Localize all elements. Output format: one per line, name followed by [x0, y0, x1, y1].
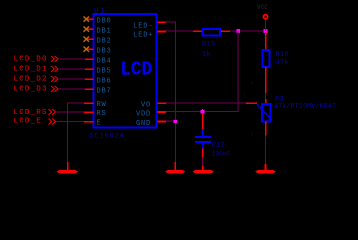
svg-text:1k: 1k: [202, 51, 211, 59]
svg-text:VO: VO: [141, 102, 151, 110]
no-connect X pin DB3 stub: [87, 49, 94, 51]
no-connect X mark DB0: [84, 17, 90, 22]
no-connect X pin DB2 stub: [87, 39, 94, 41]
pin stub VO: [158, 103, 167, 105]
lead R16 bottom: [265, 67, 267, 93]
wiper lead red: [246, 103, 257, 105]
svg-text:15: 15: [166, 17, 172, 23]
svg-text:DB3: DB3: [97, 48, 112, 56]
svg-text:R16: R16: [276, 51, 290, 59]
junction C17 top: [201, 110, 205, 114]
wire LCD_D0 to DB4: [58, 59, 85, 60]
ground lead RW: [67, 162, 69, 170]
ground symbol LED- net: [165, 170, 186, 173]
svg-text:DB5: DB5: [97, 68, 112, 76]
svg-text:2: 2: [251, 80, 254, 86]
ground lead LED- net: [175, 162, 177, 170]
ground symbol RW net: [57, 170, 79, 173]
capacitor C17 lead top red: [202, 114, 204, 131]
wire LCD_D1 to DB5: [58, 69, 85, 70]
terminal chevron for LCD_D3: [51, 86, 58, 92]
svg-text:LCD_D3: LCD_D3: [14, 86, 48, 94]
lead VCC junction to R16: [265, 32, 267, 50]
svg-text:LCD: LCD: [120, 60, 152, 81]
ground lead pot net: [265, 164, 267, 170]
no-connect X mark DB1: [84, 27, 90, 32]
no-connect X mark DB3: [84, 47, 90, 52]
svg-text:LED+: LED+: [133, 32, 153, 40]
pin stub E: [84, 121, 94, 123]
terminal chevron for LCD_RS: [49, 109, 56, 115]
svg-text:DB0: DB0: [97, 18, 112, 26]
svg-text:LCD_E: LCD_E: [14, 118, 43, 126]
lead R15 right: [221, 31, 231, 33]
capacitor C17 top plate: [195, 136, 211, 138]
terminal chevron for LCD_D1: [51, 66, 58, 72]
wire RW left: [67, 103, 84, 104]
svg-text:LED-: LED-: [133, 23, 153, 31]
pin stub RS: [84, 112, 94, 114]
pin stub LED+: [158, 31, 167, 33]
terminal chevron for LCD_D2: [51, 76, 58, 82]
wire LCD_D3 to DB7: [58, 89, 85, 90]
wire R15 to junction: [230, 31, 239, 32]
svg-text:C17: C17: [212, 142, 226, 150]
capacitor C17 bottom plate: [195, 141, 211, 143]
capacitor C17 lead top blue: [202, 130, 204, 138]
ground lead C17 net: [202, 166, 204, 171]
wire LCD_E to E: [56, 121, 84, 122]
svg-text:R15: R15: [202, 41, 216, 49]
svg-text:DB6: DB6: [97, 78, 112, 86]
junction at VCC column: [264, 29, 268, 33]
pin stub DB4: [85, 59, 94, 61]
svg-text:16: 16: [166, 26, 172, 32]
pin stub GND: [158, 121, 167, 123]
wire pot to ground: [265, 136, 266, 165]
wire junction to VCC column: [239, 31, 266, 32]
svg-text:47k/PT10MV/K047: 47k/PT10MV/K047: [274, 103, 336, 111]
junction C17 cross arms: [202, 109, 203, 115]
wire VO to wiper: [166, 103, 246, 104]
svg-text:LCD_D1: LCD_D1: [14, 66, 48, 74]
potentiometer wiper arrow: [257, 104, 273, 120]
svg-text:DB2: DB2: [97, 38, 112, 46]
wire VDD link vertical (x=238): [238, 32, 239, 112]
no-connect X pin DB0 stub: [87, 19, 94, 21]
ground symbol C17 net: [193, 170, 215, 173]
LCD module U1 body: [94, 14, 157, 128]
ground symbol pot net: [255, 170, 276, 173]
svg-text:LCD_RS: LCD_RS: [14, 109, 48, 117]
resistor R16 body: [263, 50, 270, 67]
wire RW down to ground: [67, 103, 68, 163]
svg-text:VDD: VDD: [136, 111, 151, 119]
pin stub DB7: [85, 89, 94, 91]
wire R16 to pot: [265, 93, 266, 99]
no-connect X mark DB2: [84, 37, 90, 42]
wire LCD_RS to RS: [56, 112, 84, 113]
wire C17 to ground: [202, 157, 203, 166]
svg-text:1: 1: [251, 132, 254, 138]
pin stub DB5: [85, 69, 94, 71]
power vcc vertical circle to junction: [265, 20, 266, 31]
svg-text:DB4: DB4: [97, 58, 112, 66]
wire LED- right: [166, 22, 176, 23]
wire LCD_D2 to DB6: [58, 79, 85, 80]
pin stub DB6: [85, 79, 94, 81]
svg-text:47k: 47k: [276, 59, 290, 67]
svg-text:LCD_D0: LCD_D0: [14, 56, 48, 64]
svg-text:GND: GND: [136, 120, 151, 128]
svg-text:2: 2: [227, 25, 230, 31]
svg-text:RS: RS: [97, 110, 107, 118]
svg-text:U1: U1: [94, 8, 106, 16]
svg-text:LCD_D2: LCD_D2: [14, 76, 48, 84]
pin stub LED-: [158, 22, 167, 24]
svg-text:E: E: [97, 120, 102, 128]
pin stub RW: [84, 103, 94, 105]
power port VCC circle: [263, 15, 267, 19]
resistor R15 body: [203, 29, 221, 36]
svg-text:3: 3: [243, 95, 246, 101]
wire VDD link horizontal: [166, 111, 239, 112]
svg-text:VCC: VCC: [257, 4, 268, 11]
lead pot top: [265, 99, 267, 104]
junction GND net: [174, 120, 177, 123]
no-connect X pin DB1 stub: [87, 29, 94, 31]
lead pot bottom: [265, 122, 267, 136]
pin stub VDD: [158, 111, 167, 113]
svg-text:DB7: DB7: [97, 88, 112, 96]
svg-text:RW: RW: [97, 101, 107, 109]
terminal chevron for LCD_D0: [51, 56, 58, 62]
wire LED- down to ground (x=175): [175, 22, 176, 163]
potentiometer P3 body: [262, 104, 271, 122]
capacitor C17 lead bottom red: [202, 149, 204, 158]
wire GND to junction: [166, 121, 175, 122]
junction at R15 output: [237, 29, 241, 33]
wire LED+ to R15: [166, 31, 193, 32]
lead R15 left: [193, 31, 202, 33]
svg-text:SC1602A: SC1602A: [90, 133, 125, 141]
capacitor C17 lead bottom blue: [202, 143, 204, 149]
svg-text:100nF: 100nF: [212, 151, 231, 158]
svg-text:DB1: DB1: [97, 28, 112, 36]
terminal chevron for LCD_E: [49, 119, 56, 125]
